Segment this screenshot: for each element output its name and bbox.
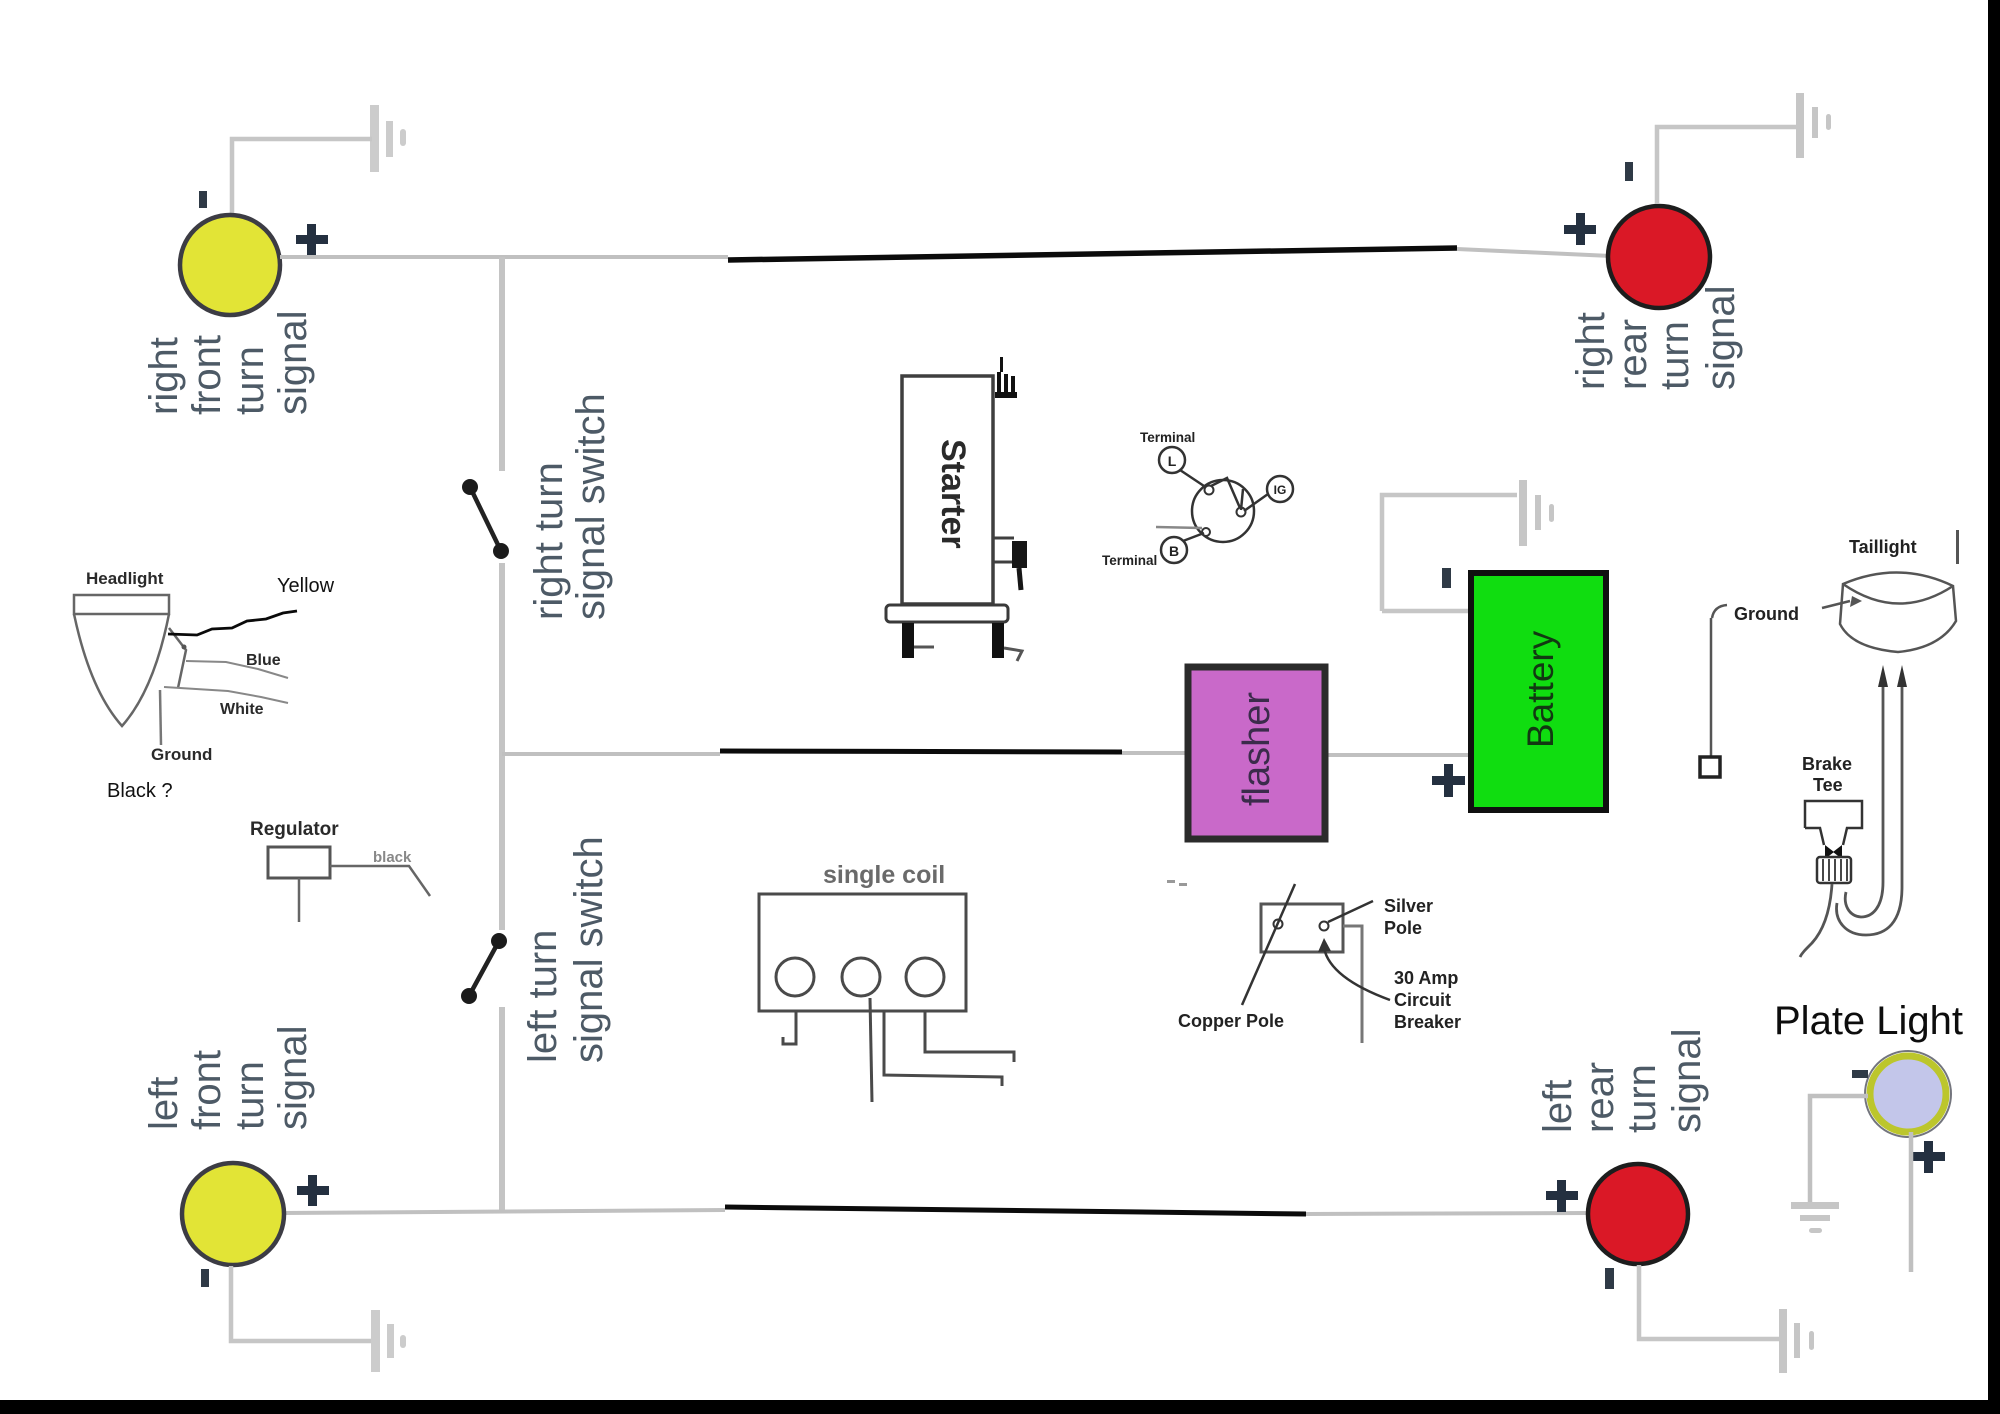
circuit breaker copper pole contact [1274,920,1283,929]
svg-text:Ground: Ground [1734,604,1799,624]
svg-text:black: black [373,849,412,866]
ground for left rear turn signal [1779,1309,1814,1373]
svg-text:Brake: Brake [1802,754,1852,774]
svg-text:Blue: Blue [246,652,281,669]
circuit breaker faint dashes [1167,880,1175,883]
switch left turn signal [461,933,507,1004]
wire bottom horizontal right segment [1306,1213,1590,1214]
single coil left wire [783,1011,796,1044]
wire left front turn signal to ground [231,1266,371,1341]
svg-text:Taillight: Taillight [1849,537,1917,557]
ignition switch L terminal circle [1159,447,1185,473]
plus label plate light [1913,1141,1945,1173]
svg-text:left: left [1536,1080,1580,1133]
taillight ground terminal square [1700,757,1720,777]
ignition switch left stub wire [1156,527,1202,528]
single coil middle wire [870,998,872,1102]
svg-text:Starter: Starter [934,439,972,549]
ignition switch B terminal circle [1161,537,1187,563]
lamp right front turn signal [180,215,280,315]
wire middle horizontal black overlay [720,751,1122,752]
single coil right wire [925,1011,1014,1062]
starter box [902,376,993,604]
ignition switch wiper [1211,478,1243,510]
plus label battery [1432,764,1465,797]
minus label plate light [1852,1070,1868,1078]
wire bottom horizontal black overlay [725,1207,1306,1214]
svg-text:Pole: Pole [1384,918,1422,938]
ground for battery [1519,480,1554,546]
headlight blue wire [186,661,288,678]
starter right leg [992,623,1004,658]
plus label right rear turn signal [1564,213,1596,245]
svg-text:Ground: Ground [151,745,212,764]
headlight ground wire [160,690,161,745]
silver pole pointer line [1328,901,1373,922]
taillight lens [1840,572,1956,652]
taillight feed wires arrows [1878,665,1888,687]
svg-text:Tee: Tee [1813,775,1843,795]
copper pole pointer line [1242,884,1295,1005]
svg-text:left turn: left turn [521,930,565,1063]
svg-text:signal: signal [271,310,315,415]
wire trunk vertical lower [499,1007,505,1213]
svg-text:signal: signal [1699,285,1743,390]
label right turn signal switch [527,393,613,620]
ground for right front turn signal [370,105,406,172]
regulator black wire [330,866,430,896]
taillight ground arrow [1822,601,1850,608]
svg-text:flasher: flasher [1236,692,1278,806]
starter top terminal [995,357,1017,398]
svg-text:Terminal: Terminal [1102,553,1157,568]
taillight feed wire outer [1837,687,1902,935]
ignition switch wire IG [1244,494,1268,511]
ignition switch contact dots [1205,486,1214,495]
single coil inner right wire [884,1011,1002,1086]
plate light lamp [1870,1056,1946,1132]
plus label left rear turn signal [1546,1180,1578,1212]
taillight label bar [1956,530,1959,564]
svg-text:single coil: single coil [823,861,945,889]
wire top horizontal left segment [280,255,728,259]
taillight ground wire [1710,618,1713,757]
svg-text:Circuit: Circuit [1394,990,1451,1010]
svg-text:Terminal: Terminal [1140,430,1195,445]
circuit breaker silver pole contact [1320,922,1329,931]
svg-text:Silver: Silver [1384,896,1433,916]
battery box [1471,573,1606,810]
ground for left front turn signal [371,1310,406,1372]
plus label left front turn signal [297,1175,329,1206]
svg-text:signal switch: signal switch [567,836,611,1063]
svg-text:Yellow: Yellow [277,575,335,597]
svg-text:front: front [185,335,229,415]
ignition switch wire B [1183,533,1204,541]
svg-text:turn: turn [1653,321,1697,390]
taillight feed wire inner [1845,687,1883,917]
regulator box [268,847,330,878]
headlight white wire [164,687,288,703]
svg-text:Black ?: Black ? [107,780,173,802]
wire trunk vertical upper [499,257,505,471]
svg-text:Copper Pole: Copper Pole [1178,1011,1284,1031]
brake tee body [1805,801,1862,845]
svg-text:Battery: Battery [1520,630,1561,748]
svg-text:turn: turn [228,346,272,415]
brake tee valve [1825,845,1834,859]
label right rear turn signal [1569,285,1743,390]
flasher box [1188,667,1325,839]
black border right [1988,0,2000,1414]
label left rear turn signal [1536,1028,1709,1133]
regulator bottom wire [298,878,301,922]
circuit breaker output wire [1343,926,1362,1043]
wire middle horizontal left segment [502,752,720,756]
lamp left rear turn signal [1588,1164,1688,1264]
lamp right rear turn signal [1608,206,1710,308]
black border bottom [0,1400,2000,1414]
svg-text:signal switch: signal switch [569,393,613,620]
svg-text:Breaker: Breaker [1394,1012,1461,1032]
svg-text:front: front [185,1050,229,1130]
svg-text:turn: turn [1620,1064,1664,1133]
ignition switch body [1192,480,1254,542]
starter base plate [886,605,1008,622]
starter left leg foot [914,646,934,649]
wire top horizontal black overlay [728,248,1457,260]
minus label left front turn signal [201,1269,209,1287]
ignition switch IG terminal circle [1267,476,1293,502]
wire left rear turn signal to ground [1639,1265,1779,1339]
single coil box [759,894,966,1011]
circuit breaker arrow [1324,948,1390,1000]
brake hose [1800,884,1832,957]
plate light feed wire [1909,1132,1914,1272]
wire right front turn signal to ground [232,139,372,215]
headlight body [74,595,187,726]
svg-text:right turn: right turn [527,462,571,620]
starter right leg foot [1004,648,1022,661]
svg-text:Plate Light: Plate Light [1774,999,1963,1043]
svg-text:IG: IG [1274,483,1287,497]
svg-text:signal: signal [271,1025,315,1130]
svg-text:right: right [142,337,186,415]
label left front turn signal [142,1025,315,1130]
svg-text:B: B [1169,543,1179,559]
starter side terminal [993,538,1027,590]
minus label left rear turn signal [1605,1268,1614,1289]
label left turn signal switch [521,836,611,1063]
svg-text:right: right [1569,312,1613,390]
minus label right rear turn signal [1625,162,1633,181]
ground for plate light [1791,1202,1839,1233]
battery ground wire [1382,495,1517,611]
ground for right rear turn signal [1796,93,1831,158]
plate light ground wire [1810,1096,1868,1202]
svg-text:L: L [1168,453,1177,469]
wire flasher to battery [1325,753,1472,757]
wire top horizontal right segment [1457,249,1611,256]
switch right turn signal [462,479,509,559]
circuit breaker box [1261,904,1343,952]
svg-text:rear: rear [1578,1062,1622,1133]
lamp left front turn signal [182,1163,284,1265]
wire bottom horizontal left segment [282,1210,725,1213]
ignition switch wire L [1180,470,1207,488]
svg-text:rear: rear [1611,319,1655,390]
brake tee cylinder [1817,857,1851,883]
starter left leg [902,623,914,658]
label right front turn signal [142,310,315,415]
plus label right front turn signal [296,224,328,255]
svg-text:signal: signal [1665,1028,1709,1133]
wire middle horizontal to flasher [1122,751,1188,755]
headlight yellow wire [168,611,297,635]
plate light outer ring [1865,1051,1951,1137]
svg-text:30 Amp: 30 Amp [1394,968,1458,988]
minus label battery [1442,568,1451,588]
taillight ground hook [1712,605,1727,618]
svg-text:White: White [220,701,264,718]
svg-text:turn: turn [228,1061,272,1130]
svg-text:Regulator: Regulator [250,819,339,840]
single coil terminal circles [776,958,814,996]
svg-text:Headlight: Headlight [86,569,164,588]
wire right rear turn signal to ground [1657,127,1797,204]
svg-text:left: left [142,1077,186,1130]
wire trunk vertical middle [499,563,505,930]
minus label right front turn signal [199,191,207,208]
